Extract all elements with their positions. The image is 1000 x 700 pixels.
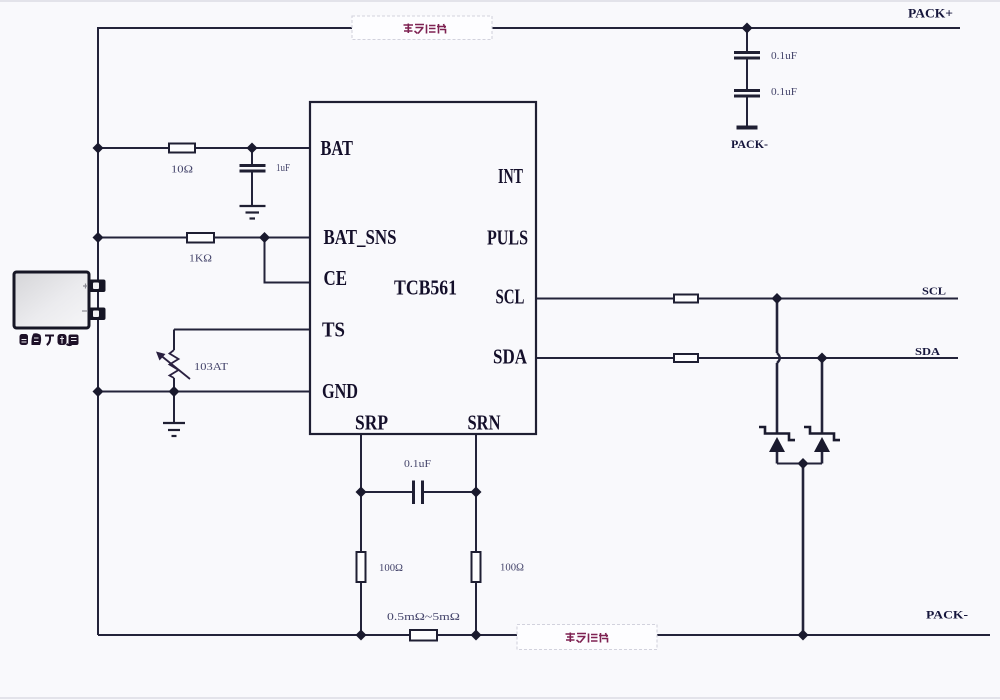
wire: PACK+ top rail right segment [492, 27, 960, 29]
resistor R2 1Kohm [187, 233, 214, 243]
page top edge line [0, 0, 1000, 2]
battery terminal tab + [89, 280, 106, 293]
node: SRP/C4 [356, 487, 367, 498]
capacitor C3 0.1uF (bottom) [734, 91, 760, 97]
svg-text:0.5mΩ~5mΩ: 0.5mΩ~5mΩ [387, 612, 460, 623]
wire: BAT_SNS row from bus to R2 [98, 237, 187, 239]
svg-text:1uF: 1uF [276, 163, 290, 174]
svg-text:SDA: SDA [493, 345, 528, 369]
ground below thermistor [163, 423, 185, 436]
svg-text:GND: GND [322, 379, 358, 403]
node: SRP/bottom rail [356, 630, 367, 641]
PACK- terminal bar (top right) [737, 126, 758, 130]
wire: PACK+ decoupling branch down [746, 28, 748, 51]
wire: bottom PACK- rail right segment [657, 634, 990, 636]
wire: SDA row from R6 to right edge [698, 357, 958, 359]
thermistor RT1 103AT [159, 350, 190, 379]
resistor R4 100ohm (SRN) [472, 552, 481, 582]
wire: between C2 and C3 [746, 59, 748, 89]
wire: SDA branch down to zener D2 [821, 358, 824, 434]
wire: TS row to IC pin [174, 329, 310, 331]
wire: ground stub below GND row [173, 392, 175, 424]
wire: thermistor top stub [173, 330, 175, 351]
battery label (CJK blobs) [20, 333, 79, 345]
node: bus/BAT_SNS [93, 232, 104, 243]
wire: C4 row to SRN [424, 491, 476, 493]
wire: BAT row from R1 to IC pin [195, 147, 310, 149]
wire: C4 row from SRP [361, 491, 412, 493]
wire: C1 to ground [251, 172, 253, 205]
wire: SCL branch down to zener D1 with hop over SDA [776, 299, 779, 354]
svg-text:SCL: SCL [496, 285, 525, 309]
svg-text:PACK+: PACK+ [908, 6, 953, 21]
capacitor C2 0.1uF (top) [734, 53, 760, 59]
wire: SRP down to bottom rail [360, 582, 362, 635]
resistor R3 100ohm (SRP) [357, 552, 366, 582]
svg-text:CE: CE [324, 266, 348, 290]
svg-text:TCB561: TCB561 [394, 276, 457, 300]
node: BAT/C1 [247, 143, 258, 154]
page bottom edge line [0, 697, 1000, 699]
wire: GND row from bus to IC pin [98, 391, 310, 393]
svg-text:100Ω: 100Ω [500, 563, 524, 574]
svg-text:INT: INT [498, 164, 523, 188]
svg-text:100Ω: 100Ω [379, 563, 403, 574]
high-side protection box [352, 16, 492, 40]
low-side protection box [517, 625, 657, 650]
svg-text:10Ω: 10Ω [171, 165, 193, 176]
resistor R1 10ohm [169, 144, 195, 153]
wire: D2 anode down [821, 452, 824, 464]
wire: BAT row from bus to R1 [98, 147, 169, 149]
battery terminal tab - [89, 308, 106, 321]
capacitor C4 0.1uF between SRP and SRN [414, 481, 423, 505]
wire: SCL row from IC to R5 [536, 298, 674, 300]
node: SRN/bottom rail [471, 630, 482, 641]
svg-text:SCL: SCL [922, 286, 946, 298]
svg-text:0.1uF: 0.1uF [404, 459, 432, 470]
zener diode D2 [804, 427, 840, 440]
node: SCL / D1 [772, 293, 783, 304]
wire: D1 anode down [776, 452, 779, 464]
op-amp U1 TCB561 IC body [310, 102, 536, 434]
battery polarity marks [83, 284, 88, 289]
wire: C1 branch down from BAT row [251, 148, 253, 164]
node: bus/GND [93, 386, 104, 397]
resistor R6 (SDA series) [674, 354, 698, 362]
wire: SRN down to bottom rail [475, 582, 477, 635]
svg-text:SRN: SRN [468, 411, 501, 435]
ground below C1 [240, 206, 266, 219]
zener diode D1 [759, 427, 795, 440]
node: zener common [798, 458, 809, 469]
wire: SRP pin down from IC [360, 434, 362, 552]
wire: PACK+ top rail left segment [98, 28, 352, 635]
node: SRN/C4 [471, 487, 482, 498]
node: SDA / D2 [817, 353, 828, 364]
wire: SRN pin down from IC [475, 434, 477, 552]
node: top rail / decoupling branch [742, 23, 753, 34]
wire: CE branch from BAT_SNS node down and to IC [265, 238, 311, 283]
svg-text:BAT: BAT [321, 136, 354, 160]
svg-text:SRP: SRP [355, 411, 388, 435]
wire: SCL row from R5 to right edge [698, 298, 958, 300]
svg-text:0.1uF: 0.1uF [771, 51, 797, 62]
wire: SDA row from IC to R6 [536, 357, 674, 359]
wire: zener common down to PACK- rail [802, 464, 805, 636]
wire: BAT_SNS row from R2 to IC pin [214, 237, 310, 239]
node: BAT_SNS/CE [259, 232, 270, 243]
node: bus/BAT [93, 143, 104, 154]
capacitor C1 1uF [240, 166, 266, 172]
wire: thermistor bottom stub [173, 378, 175, 392]
wire: zener common connector [777, 463, 822, 465]
svg-text:SDA: SDA [915, 346, 940, 358]
resistor R5 (SCL series) [674, 295, 698, 303]
node: zener return / PACK- rail [798, 630, 809, 641]
svg-text:1KΩ: 1KΩ [189, 254, 212, 265]
resistor RS sense 0.5m-5m ohm [410, 630, 437, 641]
node: thermistor/GND [169, 386, 180, 397]
svg-text:PULS: PULS [487, 226, 528, 250]
svg-text:103AT: 103AT [194, 362, 228, 373]
svg-text:BAT_SNS: BAT_SNS [324, 225, 397, 249]
wire: C3 to PACK- terminal [746, 97, 748, 126]
svg-text:TS: TS [322, 318, 345, 342]
svg-text:0.1uF: 0.1uF [771, 87, 797, 98]
svg-text:PACK-: PACK- [731, 137, 768, 151]
svg-text:PACK-: PACK- [926, 608, 968, 622]
wire: bottom PACK- rail left segment [98, 634, 517, 636]
